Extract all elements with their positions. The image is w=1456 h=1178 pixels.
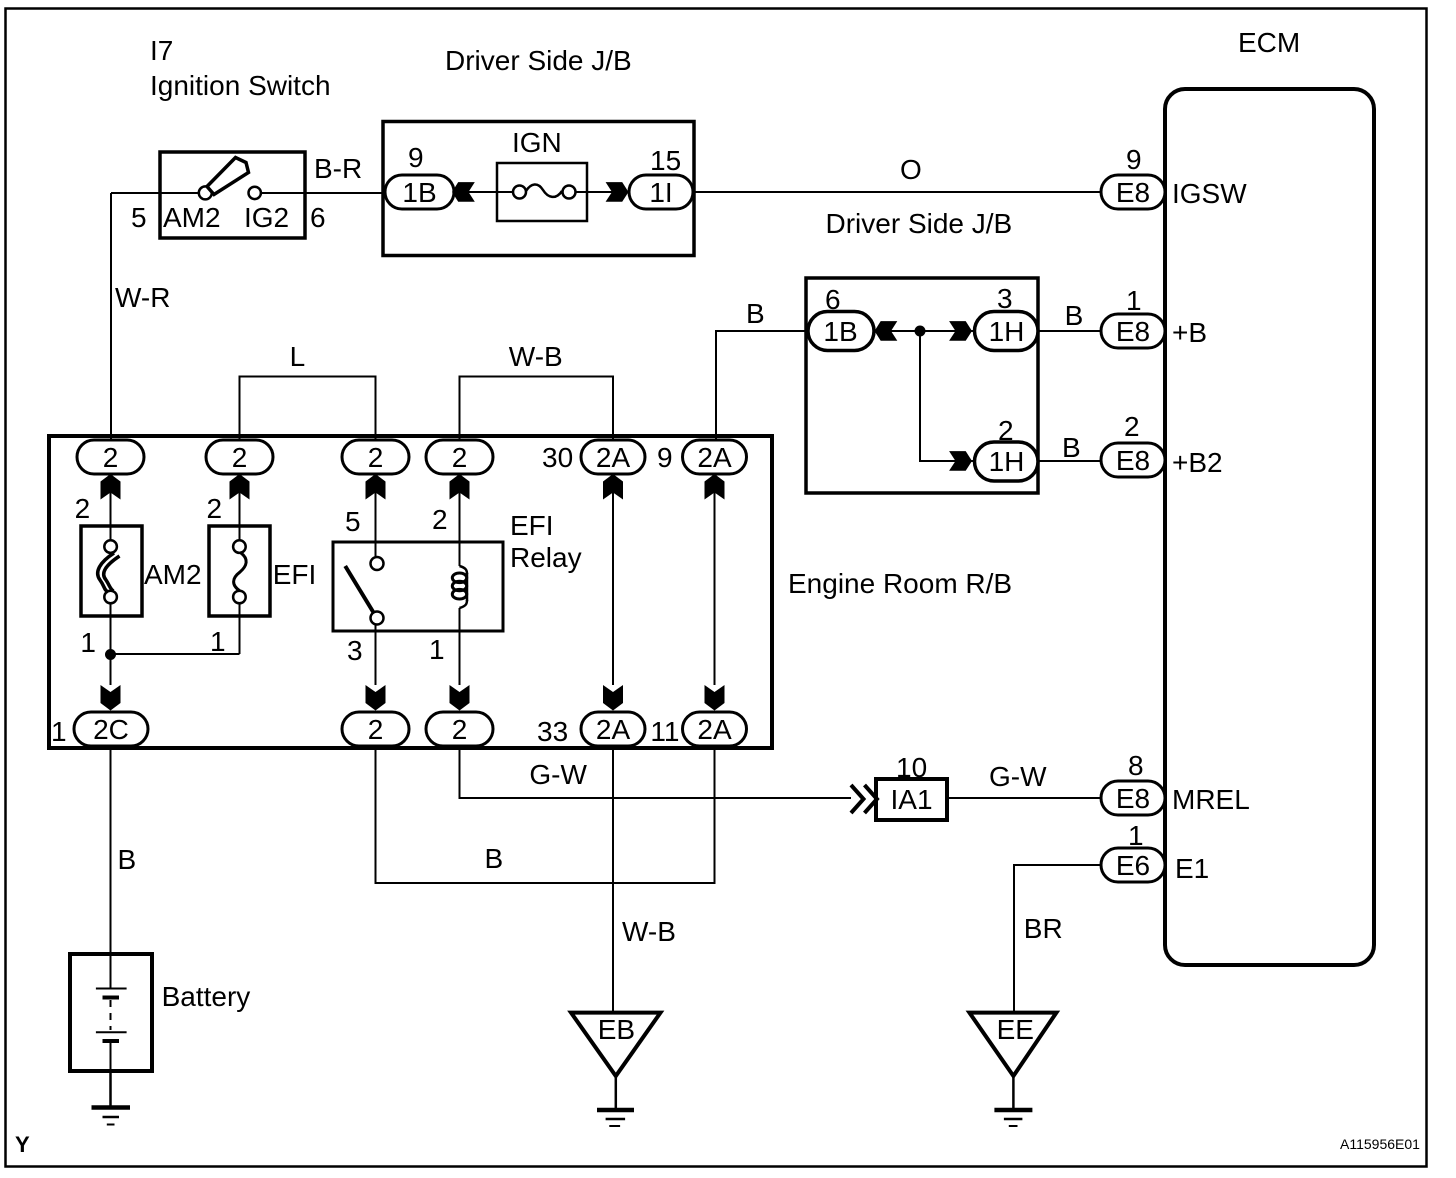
svg-text:AM2: AM2: [163, 202, 221, 233]
svg-text:O: O: [900, 154, 922, 185]
arrow down: [450, 685, 470, 711]
fuse AM2: [81, 526, 142, 616]
svg-text:2: 2: [207, 493, 223, 524]
svg-text:E8: E8: [1116, 445, 1150, 476]
svg-text:W-B: W-B: [509, 341, 563, 372]
battery: [70, 954, 152, 1071]
svg-text:1I: 1I: [649, 177, 672, 208]
svg-text:1B: 1B: [823, 316, 857, 347]
wire: [239, 616, 241, 654]
svg-text:A115956E01: A115956E01: [1340, 1136, 1420, 1152]
connector 2A pin 9: [683, 440, 747, 474]
arrow right: [949, 321, 972, 341]
wire L loop: [240, 377, 376, 442]
ECM body: [1165, 89, 1374, 965]
wire W-R: [110, 193, 112, 441]
wire G-W to IA1: [460, 746, 852, 798]
arrow right: [606, 182, 629, 202]
connector E8 +B: [1101, 314, 1165, 348]
svg-text:2A: 2A: [596, 714, 631, 745]
svg-text:E1: E1: [1175, 853, 1209, 884]
arrow up: [366, 474, 386, 500]
svg-text:E8: E8: [1116, 316, 1150, 347]
connector 2C: [74, 712, 148, 746]
wire: [920, 331, 975, 461]
svg-text:33: 33: [537, 716, 568, 747]
svg-text:G-W: G-W: [989, 761, 1047, 792]
svg-text:Battery: Battery: [162, 981, 251, 1012]
svg-text:EE: EE: [997, 1014, 1034, 1045]
svg-text:EFI: EFI: [510, 510, 554, 541]
svg-text:W-B: W-B: [622, 916, 676, 947]
connector 1I: [629, 175, 693, 209]
svg-text:2: 2: [452, 442, 468, 473]
svg-text:Relay: Relay: [510, 542, 582, 573]
wire: [873, 330, 975, 332]
wire BR: [1014, 865, 1101, 1012]
svg-text:B: B: [485, 843, 504, 874]
connector 2 (AM2 fuse top): [77, 440, 144, 474]
svg-text:1: 1: [80, 627, 96, 658]
wire battery B: [110, 746, 112, 954]
arrow down: [366, 685, 386, 711]
junction dot: [915, 326, 926, 337]
relay EFI: [333, 474, 503, 685]
svg-text:E6: E6: [1116, 850, 1150, 881]
svg-text:2: 2: [75, 493, 91, 524]
svg-text:1H: 1H: [989, 446, 1025, 477]
connector 2 (relay pin 3 bottom): [342, 712, 409, 746]
wire: [587, 191, 629, 193]
svg-text:Driver Side J/B: Driver Side J/B: [826, 208, 1013, 239]
relay box R/B: [49, 436, 772, 748]
svg-text:9: 9: [657, 442, 673, 473]
svg-text:1: 1: [1128, 820, 1144, 851]
svg-text:I7: I7: [150, 35, 173, 66]
connector E8 +B2: [1101, 443, 1165, 477]
wire bus 2A30-2A33: [612, 474, 614, 685]
svg-text:1: 1: [210, 626, 226, 657]
connector 1H pin 2: [975, 442, 1039, 481]
ground battery: [92, 1108, 131, 1125]
svg-text:2: 2: [432, 504, 448, 535]
arrow up: [230, 474, 250, 500]
svg-text:6: 6: [310, 202, 326, 233]
wire: [110, 474, 112, 527]
wire: [239, 474, 241, 527]
svg-text:2C: 2C: [93, 714, 129, 745]
arrow left: [452, 182, 475, 202]
connector 2A pin 30: [581, 440, 645, 474]
junction block J/B 1: [383, 122, 694, 256]
svg-text:2A: 2A: [697, 714, 732, 745]
svg-text:IGN: IGN: [512, 127, 562, 158]
svg-text:IA1: IA1: [890, 784, 932, 815]
svg-text:B: B: [746, 298, 765, 329]
svg-text:EFI: EFI: [273, 559, 317, 590]
svg-text:E8: E8: [1116, 783, 1150, 814]
wire: [1038, 330, 1101, 332]
wire: [947, 797, 1101, 799]
connector 2 (EFI fuse top): [206, 440, 273, 474]
svg-text:11: 11: [650, 716, 679, 747]
connector E6: [1101, 848, 1165, 882]
svg-text:ECM: ECM: [1238, 27, 1300, 58]
svg-text:E8: E8: [1116, 177, 1150, 208]
connector 2A pin 33: [581, 712, 645, 746]
connector E8 IGSW: [1101, 175, 1165, 209]
junction block J/B 2: [806, 278, 1038, 493]
switch lever: [207, 158, 249, 195]
junction dot: [105, 649, 116, 660]
svg-text:1: 1: [1126, 285, 1142, 316]
connector E8 MREL: [1101, 781, 1165, 815]
fuse EFI: [209, 526, 270, 616]
svg-text:30: 30: [542, 442, 573, 473]
wire: [110, 616, 112, 685]
svg-text:1: 1: [51, 716, 67, 747]
connector 2A pin 11: [683, 712, 747, 746]
wire: [261, 192, 385, 194]
connector 2 (relay pin 2 top): [426, 440, 493, 474]
arrow up: [603, 474, 623, 500]
arrow right: [949, 451, 972, 471]
svg-text:2A: 2A: [697, 442, 732, 473]
svg-text:5: 5: [345, 506, 361, 537]
svg-text:MREL: MREL: [1172, 784, 1250, 815]
svg-text:2: 2: [368, 442, 384, 473]
arrow down: [603, 685, 623, 711]
svg-text:Y: Y: [15, 1132, 30, 1157]
svg-text:BR: BR: [1024, 913, 1063, 944]
svg-text:AM2: AM2: [144, 559, 202, 590]
svg-text:1: 1: [429, 634, 445, 665]
svg-text:Ignition Switch: Ignition Switch: [150, 70, 331, 101]
arrow up: [705, 474, 725, 500]
svg-text:B: B: [118, 844, 137, 875]
svg-text:2A: 2A: [596, 442, 631, 473]
svg-text:EB: EB: [598, 1014, 635, 1045]
svg-text:15: 15: [650, 145, 681, 176]
svg-text:9: 9: [408, 142, 424, 173]
wire: [452, 191, 497, 193]
arrow up: [101, 474, 121, 500]
ignition switch I7: [160, 152, 305, 238]
svg-text:+B2: +B2: [1172, 447, 1223, 478]
wire: [111, 192, 199, 194]
arrow left: [875, 321, 898, 341]
svg-text:3: 3: [347, 635, 363, 666]
svg-text:3: 3: [997, 283, 1013, 314]
wire W-B to EB: [612, 746, 614, 1012]
wire W-B loop: [460, 377, 614, 442]
svg-text:W-R: W-R: [115, 282, 170, 313]
svg-text:IGSW: IGSW: [1172, 178, 1247, 209]
connector 1B: [808, 312, 874, 351]
wire O to ECM: [693, 191, 1101, 193]
wire B loop: [376, 746, 715, 883]
wire: [111, 653, 240, 655]
svg-text:2: 2: [232, 442, 248, 473]
svg-text:IG2: IG2: [244, 202, 289, 233]
svg-text:2: 2: [452, 714, 468, 745]
connector IA1: [876, 779, 947, 820]
svg-text:B-R: B-R: [314, 153, 362, 184]
svg-text:L: L: [290, 341, 306, 372]
chevron arrows: [851, 785, 864, 813]
connector 2 (relay pin 5 top): [342, 440, 409, 474]
svg-text:2: 2: [103, 442, 119, 473]
ground EE: [969, 1013, 1056, 1126]
connector 1H pin 3: [975, 312, 1039, 351]
svg-text:B: B: [1065, 300, 1084, 331]
svg-text:1H: 1H: [989, 316, 1025, 347]
svg-text:9: 9: [1126, 144, 1142, 175]
svg-text:Driver Side J/B: Driver Side J/B: [445, 45, 632, 76]
svg-text:2: 2: [1124, 411, 1140, 442]
wire: [109, 1071, 112, 1107]
arrow down: [101, 685, 121, 711]
svg-text:+B: +B: [1172, 317, 1207, 348]
connector 1B: [385, 175, 454, 209]
svg-text:5: 5: [131, 202, 147, 233]
svg-text:2: 2: [368, 714, 384, 745]
wire: [716, 331, 808, 440]
fuse IGN: [497, 163, 587, 221]
svg-text:Engine Room R/B: Engine Room R/B: [788, 568, 1012, 599]
switch contact AM2: [199, 186, 212, 199]
ground EB: [571, 1013, 661, 1126]
switch contact IG2: [249, 187, 261, 199]
svg-text:8: 8: [1128, 750, 1144, 781]
svg-text:B: B: [1062, 432, 1081, 463]
svg-text:G-W: G-W: [529, 759, 587, 790]
wire: [1038, 460, 1101, 462]
connector 2 (relay pin 1 bottom): [426, 712, 493, 746]
arrow up: [450, 474, 470, 500]
wire bus 2A9-2A11: [714, 474, 716, 685]
svg-text:1B: 1B: [402, 177, 436, 208]
arrow down: [705, 685, 725, 711]
